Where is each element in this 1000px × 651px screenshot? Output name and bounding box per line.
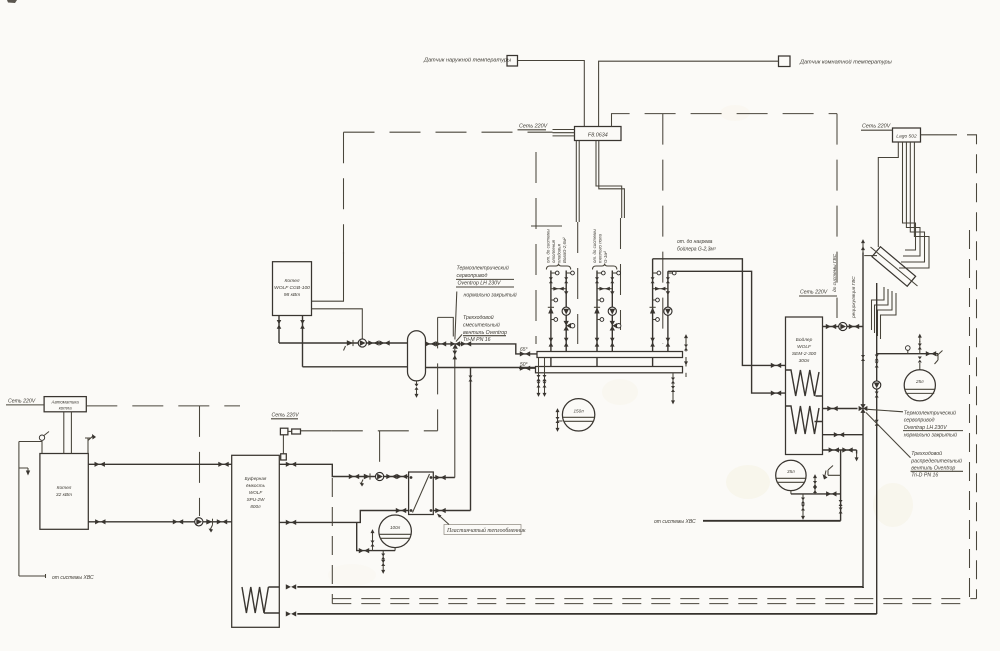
header50 right vent — [685, 373, 687, 377]
safety group K1 — [19, 442, 42, 454]
svg-text:Бойлер: Бойлер — [796, 336, 813, 343]
wire dashed drop left — [535, 152, 537, 344]
scan corner artifact — [7, 0, 17, 3]
pump circuit — [608, 307, 616, 315]
valve recirc b — [875, 362, 879, 368]
label circuit2 rotated — [592, 229, 608, 263]
svg-text:смесительный: смесительный — [463, 322, 500, 329]
svg-text:100л: 100л — [390, 525, 401, 530]
valve bottom A — [286, 584, 296, 589]
svg-text:Автоматика: Автоматика — [51, 400, 80, 405]
valve separator drain — [415, 384, 419, 390]
svg-text:Сеть 220V: Сеть 220V — [800, 290, 828, 296]
svg-text:32 кВт: 32 кВт — [56, 492, 72, 498]
pipe cold feed left — [19, 442, 46, 579]
wire stubs into controller — [553, 130, 575, 136]
boiler K2 WOLF CGB-100 — [273, 262, 312, 316]
valve return — [564, 277, 568, 283]
coil 2 heating — [786, 406, 823, 434]
pipe boiler lower to riser — [823, 434, 864, 436]
pipe expansion manifold — [877, 353, 938, 355]
vent column 35l pipe — [814, 479, 816, 494]
wire dashed servo drop — [437, 317, 439, 430]
check nib return — [666, 291, 670, 295]
svg-text:Tri-D PN 16: Tri-D PN 16 — [911, 472, 938, 478]
thermometer return — [612, 272, 616, 274]
stem tank 35l — [790, 491, 792, 494]
rule Tri-D — [911, 470, 964, 472]
svg-text:Трехходовой: Трехходовой — [911, 450, 942, 457]
wire controller bottom pair — [576, 141, 579, 223]
rule servo right — [903, 430, 963, 432]
pipe HX bottom right — [433, 510, 470, 512]
pipe boiler top to DHW riser — [823, 326, 864, 328]
wire sensor to fitting — [282, 435, 284, 454]
valve buffer mid — [286, 520, 296, 525]
fill valve K1 top — [85, 436, 94, 454]
svg-text:нормально закрытый: нормально закрытый — [904, 432, 957, 439]
brace — [593, 264, 617, 270]
wire dashed to servo and pump — [332, 430, 438, 432]
leader Tri-M to valve — [456, 335, 462, 342]
valve supply tap — [277, 320, 282, 329]
wire dashed bottom loop B — [332, 603, 969, 605]
room temperature sensor — [779, 56, 791, 67]
expansion tank 25l — [904, 370, 935, 401]
servo stem mixing valve — [454, 349, 456, 478]
pipe supply main — [279, 342, 408, 344]
three-way valve circuit — [610, 321, 618, 331]
header drain left b — [544, 358, 546, 390]
svg-text:WOLF CGB-100: WOLF CGB-100 — [274, 285, 310, 291]
valve tank100 — [359, 548, 369, 553]
wire 220V dashed feed — [344, 131, 553, 133]
valve lower pipe — [834, 432, 844, 437]
valve loading b — [386, 474, 396, 479]
valve after separator b — [436, 341, 446, 346]
bypass valve — [653, 288, 668, 290]
pipe HX top right — [433, 477, 455, 479]
wire lago bundle w1 — [878, 142, 898, 247]
leader Tri-D — [866, 413, 911, 458]
header right vent — [685, 340, 687, 352]
header drain left a — [538, 358, 540, 390]
wire dashed bottom loop A — [332, 598, 976, 600]
pipe K1 return — [88, 521, 231, 523]
pipe DHW riser — [862, 253, 864, 589]
valve recirc d — [875, 420, 879, 426]
wire lower bundle w3 — [878, 291, 893, 336]
valve supply a — [368, 340, 378, 345]
svg-text:вентиль Oventrop: вентиль Oventrop — [463, 330, 507, 336]
wire lago bundle w4 — [901, 142, 925, 262]
check loading — [364, 473, 370, 479]
thermometer mid — [597, 299, 600, 301]
svg-text:98 кВт: 98 кВт — [284, 292, 300, 298]
label circuit1 rotated — [546, 229, 568, 264]
three-way valve circuit — [564, 321, 572, 331]
valve boiler top — [826, 324, 836, 329]
svg-text:150л: 150л — [573, 409, 584, 414]
pump DHW recirculation — [839, 322, 847, 330]
pipe supply after separator — [426, 344, 538, 354]
valve 65 header inlet — [520, 351, 530, 356]
underline boiler power — [799, 295, 837, 297]
wire dashed vertical left trunk — [343, 132, 345, 254]
boiler K2 supply tap — [278, 316, 280, 344]
valve return tap — [300, 320, 305, 329]
svg-text:SPU-2W: SPU-2W — [247, 497, 266, 502]
svg-text:от системы ХВС: от системы ХВС — [654, 519, 696, 525]
svg-text:от. до нагрева: от. до нагрева — [677, 239, 713, 245]
safety valve manifold right — [926, 351, 936, 356]
boiler DHW tank WOLF SEM-2-300 — [786, 317, 823, 455]
heat exchanger ГВС diagonal — [872, 247, 916, 287]
bypass valve — [597, 288, 612, 290]
svg-text:ёмкость: ёмкость — [246, 483, 266, 488]
svg-text:F8.0634: F8.0634 — [588, 133, 608, 139]
pipe cold water inlet — [703, 520, 841, 522]
valve buffer top — [286, 462, 296, 467]
valve HX right bottom — [435, 508, 445, 513]
wire lower bundle w4 — [881, 293, 897, 339]
valve recirc c — [875, 392, 879, 398]
svg-text:Tri-M PN 16: Tri-M PN 16 — [463, 337, 491, 343]
svg-text:SEM-2-300: SEM-2-300 — [792, 351, 817, 357]
pipe buffer mid right — [279, 511, 408, 523]
check valve K1 — [206, 519, 212, 525]
wire dashed automation to pump — [86, 406, 240, 516]
separator drain stem — [416, 381, 418, 384]
valve boiler inlet top — [771, 363, 781, 368]
svg-text:распределительный: распределительный — [910, 457, 962, 464]
thermometer supply — [597, 272, 601, 274]
pipe boiler to distribution valve — [823, 408, 858, 410]
boiler K2 return tap — [302, 316, 304, 367]
wire boiler to pump sensor — [312, 309, 363, 339]
header drain right — [672, 373, 674, 396]
valve HX right top — [435, 475, 445, 480]
pipe HX inlet — [864, 255, 877, 257]
wire lago bundle w3 — [903, 142, 920, 256]
thermometer return — [668, 272, 672, 274]
drain tank100 — [382, 551, 384, 565]
svg-text:хладовья: хладовья — [557, 243, 562, 264]
svg-text:WOLF: WOLF — [797, 344, 812, 350]
header bar 65 — [537, 352, 683, 358]
thermometer low — [597, 319, 600, 321]
valve boiler top b — [849, 324, 859, 329]
pump P1 supply — [358, 339, 366, 347]
pipe boiler bottom drain run — [823, 450, 857, 454]
pipe DHW bottom run B — [297, 613, 876, 615]
drain tick loading — [361, 480, 363, 485]
thermometer mid — [653, 299, 656, 301]
brace — [546, 264, 570, 270]
plate heat exchanger — [409, 472, 434, 515]
svg-text:25л: 25л — [915, 379, 924, 384]
valve K1 return c — [217, 519, 227, 524]
pump recirc — [873, 381, 881, 389]
svg-text:ВоваG-2,6м²: ВоваG-2,6м² — [562, 237, 567, 263]
tank150 fitting — [558, 412, 563, 429]
svg-text:сервопривод: сервопривод — [457, 273, 488, 279]
svg-text:отопления: отопления — [551, 239, 556, 263]
wire lago right — [921, 134, 939, 136]
svg-text:35л: 35л — [787, 469, 795, 474]
wire dashed drop circuit3 — [662, 114, 664, 344]
pipe tank to feed riser — [791, 493, 841, 495]
check nib return — [564, 291, 568, 295]
stem tank100 — [394, 548, 396, 551]
svg-text:нормально закрытый: нормально закрытый — [464, 292, 517, 299]
wire dashed top run — [612, 114, 838, 127]
expansion tank 100l — [379, 515, 412, 548]
leader servo right — [868, 409, 904, 412]
svg-text:Котел: Котел — [285, 278, 300, 284]
circuit pipes at 550.9 — [551, 271, 566, 367]
check valve supply — [347, 340, 353, 346]
svg-text:Котел: Котел — [57, 485, 72, 491]
svg-text:вентиль Oventrop: вентиль Oventrop — [911, 466, 955, 472]
valve loading c — [397, 474, 407, 479]
circuit pipes at 597.0 — [597, 271, 612, 367]
wire dashed header crossbar — [531, 225, 577, 227]
valve supply — [549, 277, 553, 283]
drain tick K1 — [210, 525, 213, 530]
valve after separator a — [425, 341, 435, 346]
svg-text:Датчик комнатной температуры: Датчик комнатной температуры — [799, 59, 892, 66]
check valve supply — [548, 307, 554, 313]
pipe K1 supply — [88, 463, 231, 465]
wire outdoor sensor to controller — [518, 61, 585, 127]
thermometer low — [551, 319, 554, 321]
svg-text:300л: 300л — [799, 358, 810, 364]
pump circuit — [664, 307, 672, 315]
wire connector run — [301, 430, 332, 432]
pipe feed riser — [840, 450, 842, 521]
valve return — [666, 277, 670, 283]
thermometer supply — [551, 272, 555, 274]
header bar 50 — [536, 367, 683, 373]
svg-text:теплого пола: теплого пола — [598, 234, 603, 263]
svg-text:Сеть 220V: Сеть 220V — [862, 124, 892, 130]
thermometer low — [653, 319, 656, 321]
valve supply — [595, 277, 599, 283]
three-way mixing valve Tri-M — [450, 341, 460, 349]
valve mixing stem — [453, 351, 458, 360]
wire servo bracket — [438, 317, 454, 336]
controller U1 F8.0634 — [575, 127, 622, 141]
isolation valves above header — [650, 338, 655, 347]
svg-text:от. до системы: от. до системы — [592, 229, 597, 263]
wire room sensor to controller — [599, 61, 779, 126]
thermometer return — [566, 272, 570, 274]
pump loading — [376, 472, 384, 480]
bypass valve — [551, 288, 566, 290]
svg-text:Датчик наружной температуры: Датчик наружной температуры — [423, 57, 511, 64]
valve HX return riser — [469, 376, 473, 382]
svg-text:от системы ХВС: от системы ХВС — [52, 575, 94, 581]
pipe tank100 — [357, 522, 395, 550]
wire dashed drop circuit1 — [577, 222, 579, 344]
drain check — [344, 346, 346, 351]
valve K1 return a — [95, 519, 105, 524]
valve on pipe — [827, 406, 837, 411]
valve K1 supply b — [218, 462, 228, 467]
rule under Tri-M — [463, 335, 506, 337]
check valve supply — [594, 307, 600, 313]
valve on tank pipe — [826, 491, 836, 496]
valve return — [610, 277, 614, 283]
valve under manifold — [918, 357, 922, 363]
svg-text:Сеть 220V: Сеть 220V — [8, 399, 36, 405]
hydraulic separator — [408, 331, 426, 381]
isolation valves above header — [549, 338, 554, 347]
controller U2 Lago 502 — [893, 128, 921, 142]
pipe buffer top right — [279, 464, 408, 476]
pump circuit — [562, 307, 570, 315]
pump K1 — [195, 518, 203, 526]
drain branch — [802, 494, 804, 512]
valve K1 supply a — [95, 462, 105, 467]
pipe recirc riser — [876, 283, 878, 614]
wire trunk to wall boiler — [312, 252, 344, 301]
svg-text:Сеть 220V: Сеть 220V — [519, 124, 549, 130]
safety vent DHW column — [861, 239, 865, 247]
svg-text:сервопривод: сервопривод — [904, 418, 935, 424]
pipe return main — [303, 367, 537, 368]
leader plate HX — [438, 515, 449, 525]
wires automation to boiler — [64, 412, 72, 454]
underline buffer power — [271, 418, 298, 420]
svg-text:до системы ГВС: до системы ГВС — [832, 253, 838, 292]
svg-text:котла: котла — [59, 406, 73, 411]
controller box automation — [44, 397, 86, 412]
check nib return — [610, 291, 614, 295]
underline lago power — [861, 129, 893, 131]
svg-text:Термоэлектрический: Термоэлектрический — [904, 409, 956, 416]
check valve supply — [650, 307, 656, 313]
svg-text:Трехходовой: Трехходовой — [463, 314, 494, 321]
label plate HX — [444, 525, 521, 535]
svg-text:Lago 502: Lago 502 — [896, 134, 917, 140]
circuit pipes at 652.6 — [653, 259, 668, 367]
stem to tank 25l — [919, 363, 921, 370]
circuit3 top run to boiler — [653, 259, 786, 393]
rule above Oventrop — [456, 278, 514, 280]
wire lago bundle w2 — [903, 142, 916, 250]
thermometer mid — [551, 299, 554, 301]
gauge manifold — [907, 351, 909, 354]
svg-text:Термоэлектрический: Термоэлектрический — [457, 265, 509, 272]
wire dashed drop circuit2 — [620, 218, 622, 330]
underline power label — [518, 129, 547, 131]
valve supply — [651, 277, 655, 283]
valve HX left bottom — [396, 508, 406, 513]
expansion tank 150l — [562, 399, 594, 431]
buffer coil — [242, 587, 279, 613]
valve 50 header inlet — [520, 366, 530, 371]
svg-text:G-1м²: G-1м² — [603, 251, 608, 263]
svg-text:Oventrap LH 230V: Oventrap LH 230V — [904, 425, 948, 431]
svg-text:WOLF: WOLF — [249, 490, 263, 495]
wire lago bundle w5 — [899, 142, 929, 268]
header mid stub right — [685, 358, 687, 367]
svg-text:Пластинчатый теплообменник: Пластинчатый теплообменник — [446, 527, 526, 534]
three-way distribution valve Tri-D — [859, 404, 868, 413]
valve recirc a — [875, 355, 879, 361]
valve boiler inlet bottom — [771, 391, 781, 396]
vent tank100 — [372, 532, 374, 551]
wire controller step pair — [596, 141, 624, 219]
valve bottom B — [286, 611, 296, 616]
wire lower bundle w1 — [872, 287, 885, 330]
svg-text:бойлера G-2,3м³: бойлера G-2,3м³ — [677, 246, 716, 253]
heat exchanger diagonal line — [871, 247, 918, 286]
rule below Oventrop — [456, 286, 514, 288]
pipe DHW bottom run A — [297, 587, 863, 588]
valve supply b — [379, 340, 389, 345]
svg-text:800л: 800л — [250, 504, 261, 509]
fill valve assembly — [825, 466, 841, 478]
wire lower bundle w2 — [875, 289, 889, 333]
valve supply c — [461, 341, 471, 346]
buffer top fitting — [281, 454, 287, 460]
wire dashed drop boiler pump — [836, 114, 838, 318]
discharge arrow K1 — [19, 468, 28, 471]
scan stains — [726, 465, 770, 499]
isolation valves above header — [595, 338, 600, 347]
buffer tank WOLF SPU-2W — [232, 455, 280, 627]
svg-text:от. до системы: от. до системы — [546, 229, 551, 263]
vent column manifold — [919, 341, 921, 354]
underline power left — [6, 404, 44, 406]
valve loading a — [349, 474, 359, 479]
valve K1 return b — [173, 519, 183, 524]
pipe HX return riser — [470, 368, 472, 511]
connector boxes — [280, 428, 288, 435]
leader servo to valve — [455, 292, 457, 340]
outdoor temperature sensor — [507, 56, 518, 67]
thermometer supply — [653, 272, 657, 274]
boiler K1 solid fuel — [40, 454, 88, 530]
wire dashed inner loop — [969, 230, 971, 604]
svg-text:рециркуляция ГВС: рециркуляция ГВС — [851, 276, 857, 319]
svg-text:Oventrop LH 230V: Oventrop LH 230V — [458, 281, 502, 287]
expansion tank 35l — [776, 460, 806, 490]
svg-text:Буферная: Буферная — [245, 476, 267, 481]
valve DHW riser — [861, 355, 865, 361]
wire dashed lago loop — [938, 135, 977, 599]
wire dashed mid drop — [331, 478, 333, 604]
coil 1 heating — [786, 370, 823, 396]
drain arrow separator — [415, 390, 419, 398]
svg-text:Сеть 220V: Сеть 220V — [272, 413, 300, 419]
valves on feed riser — [839, 500, 843, 506]
